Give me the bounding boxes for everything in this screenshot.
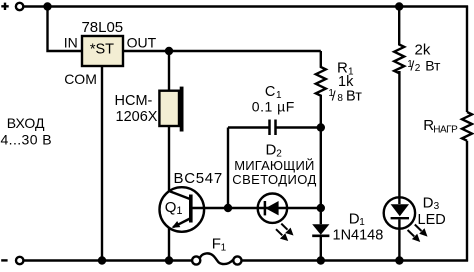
resistor R1 1k xyxy=(316,51,362,128)
wire base xyxy=(192,207,258,209)
wire right column top xyxy=(466,6,468,113)
svg-text:2k: 2k xyxy=(415,42,431,59)
wire input to IN pin xyxy=(48,7,83,52)
wire junction to D1 xyxy=(320,128,322,225)
junction COM bottom xyxy=(98,256,106,264)
svg-text:1: 1 xyxy=(359,217,365,228)
wire D3 to bottom rail xyxy=(398,229,400,261)
junction D3 bottom xyxy=(395,256,403,264)
svg-text:НАГР: НАГР xyxy=(433,125,458,136)
wire emitter to bottom rail xyxy=(168,228,170,261)
svg-text:1k: 1k xyxy=(338,74,354,90)
wire top rail xyxy=(23,5,468,7)
resistor Rload xyxy=(423,112,472,141)
wire D1 to bottom rail xyxy=(320,237,322,261)
wire OUT xyxy=(123,50,321,52)
svg-text:OUT: OUT xyxy=(127,35,157,51)
svg-text:D: D xyxy=(349,210,360,227)
node VKHOD label xyxy=(1,115,52,148)
diode D1 1N4148 xyxy=(312,210,383,243)
svg-text:1N4148: 1N4148 xyxy=(333,227,384,243)
junction D1 top xyxy=(317,204,325,212)
node minus terminal xyxy=(1,257,23,264)
wire base node up xyxy=(227,128,229,209)
svg-text:D: D xyxy=(266,142,277,159)
wire buzzer to collector xyxy=(168,126,170,191)
junction D1 bottom xyxy=(317,256,325,264)
svg-text:Вт: Вт xyxy=(346,89,362,105)
buzzer HCM-1206X xyxy=(115,87,184,132)
svg-text:МИГАЮЩИЙ: МИГАЮЩИЙ xyxy=(234,158,314,173)
junction R1 bottom / C1 right xyxy=(317,123,325,131)
svg-text:0.1 µF: 0.1 µF xyxy=(252,98,295,114)
svg-text:/: / xyxy=(410,58,414,74)
svg-text:COM: COM xyxy=(64,71,97,87)
svg-text:ВХОД: ВХОД xyxy=(7,115,45,131)
wire D2 right to junction xyxy=(287,207,321,209)
LED D2 blinking xyxy=(232,142,316,241)
wire bottom rail right xyxy=(242,259,469,261)
svg-text:4...30 В: 4...30 В xyxy=(1,132,52,148)
capacitor C1 xyxy=(228,84,321,135)
svg-text:Вт: Вт xyxy=(425,58,441,74)
junction base node xyxy=(224,204,232,212)
svg-text:/: / xyxy=(332,88,336,104)
svg-text:BC547: BC547 xyxy=(174,170,223,187)
svg-text:Q: Q xyxy=(165,199,177,216)
wire bottom rail left xyxy=(23,259,192,261)
svg-text:2: 2 xyxy=(415,63,421,74)
svg-text:F: F xyxy=(212,235,221,252)
svg-text:СВЕТОДИОД: СВЕТОДИОД xyxy=(232,172,316,187)
wire COM to bottom rail xyxy=(101,66,103,261)
svg-text:3: 3 xyxy=(434,201,440,212)
fuse F1 xyxy=(192,235,241,264)
svg-text:HCM-: HCM- xyxy=(115,93,153,109)
wire right column bottom xyxy=(466,141,468,262)
junction emitter bottom xyxy=(165,256,173,264)
svg-text:*ST: *ST xyxy=(90,41,114,57)
svg-text:1: 1 xyxy=(176,205,182,217)
svg-text:8: 8 xyxy=(337,93,343,104)
junction OUT node xyxy=(165,47,173,55)
junction top 2k xyxy=(395,2,403,10)
svg-text:D: D xyxy=(423,194,434,211)
resistor R2 2k xyxy=(394,7,441,75)
wire 2k to D3 xyxy=(398,71,400,197)
svg-text:LED: LED xyxy=(418,212,446,228)
wire OUT junction down to buzzer xyxy=(168,51,170,91)
svg-text:IN: IN xyxy=(64,35,78,51)
svg-text:1206X: 1206X xyxy=(116,109,158,125)
svg-text:78L05: 78L05 xyxy=(81,19,123,36)
node plus terminal xyxy=(1,3,23,11)
svg-text:1: 1 xyxy=(221,242,227,253)
junction top input xyxy=(43,2,51,10)
transistor Q1 BC547 xyxy=(160,170,223,232)
regulator U1 78L05 xyxy=(81,19,123,66)
LED D3 xyxy=(384,194,446,242)
